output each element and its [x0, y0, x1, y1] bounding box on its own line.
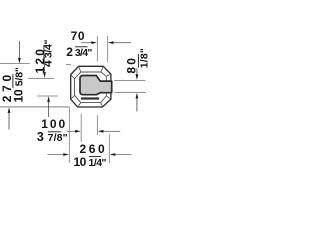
- corner connector right-bottom: [106, 96, 111, 99]
- top dim extension line V2: [107, 36, 109, 63]
- corner connector left-bottom: [71, 95, 75, 99]
- svg-text:70: 70: [71, 29, 85, 43]
- fraction overline 7/8 bottom dim: [48, 131, 61, 133]
- 100 right arrow left-pointing: [98, 130, 104, 133]
- 120 top arrow down-pointing: [44, 57, 46, 73]
- corner connector left-top: [71, 75, 75, 79]
- 260 left arrow right-pointing with leader: [47, 154, 64, 156]
- octagon inner outline: [75, 72, 107, 103]
- 260 ext line left: [68, 108, 70, 164]
- ref line R1: [114, 80, 145, 82]
- svg-text:10 5/8": 10 5/8": [11, 67, 25, 102]
- corner connector right-top: [106, 74, 111, 76]
- svg-text:1/8": 1/8": [138, 48, 149, 68]
- ref line L4: [37, 95, 58, 97]
- top dim arrow left-pointing: [108, 41, 114, 44]
- fraction overline 5/8 left dim: [12, 74, 14, 88]
- top dim leader left: [81, 42, 92, 44]
- corner connector BR: [101, 103, 103, 107]
- ref line R2: [114, 91, 145, 93]
- ref line L3: [28, 77, 54, 79]
- 260 ext line right: [108, 134, 110, 163]
- 100 dim leader right: [103, 130, 120, 132]
- 100 left arrow right-pointing: [75, 130, 81, 133]
- 80 top arrow down-pointing: [136, 68, 138, 75]
- 270 top arrow down-pointing: [18, 41, 20, 60]
- svg-text:80: 80: [124, 58, 138, 74]
- corner connector TR: [101, 66, 103, 72]
- ref line L2 bottom-left: [0, 106, 70, 108]
- ref line L1 segment near object: [66, 64, 71, 66]
- fraction overline 3/4 left dim: [43, 45, 45, 58]
- 270 bottom arrow up-pointing: [8, 107, 11, 113]
- fraction overline 1/8 right dim: [137, 54, 139, 68]
- 80 bottom arrow up-pointing: [136, 93, 139, 99]
- 260 right arrow left-pointing with leader: [110, 153, 116, 156]
- 100 ext line E1: [80, 113, 82, 142]
- 100 ext line E2: [96, 115, 98, 135]
- svg-text:260: 260: [80, 142, 106, 156]
- fraction overline 1/4 bottom dim: [89, 156, 101, 158]
- 100 dim leader left: [67, 130, 77, 132]
- top dim arrow right-pointing: [91, 41, 97, 44]
- corner connector TL: [79, 66, 81, 72]
- top dim extension line V1: [96, 36, 98, 62]
- svg-text:4 3/4": 4 3/4": [41, 40, 55, 67]
- fraction overline 3/4 top dim: [75, 46, 88, 48]
- ref line L1 top-left: [0, 63, 30, 65]
- 120 bottom arrow up-pointing: [47, 96, 50, 102]
- octagon outer outline: [71, 66, 111, 107]
- slot dark line under head: [81, 97, 99, 99]
- corner connector BL: [78, 103, 81, 107]
- gasket profile gray: [80, 76, 112, 95]
- top dim leader right: [114, 42, 132, 44]
